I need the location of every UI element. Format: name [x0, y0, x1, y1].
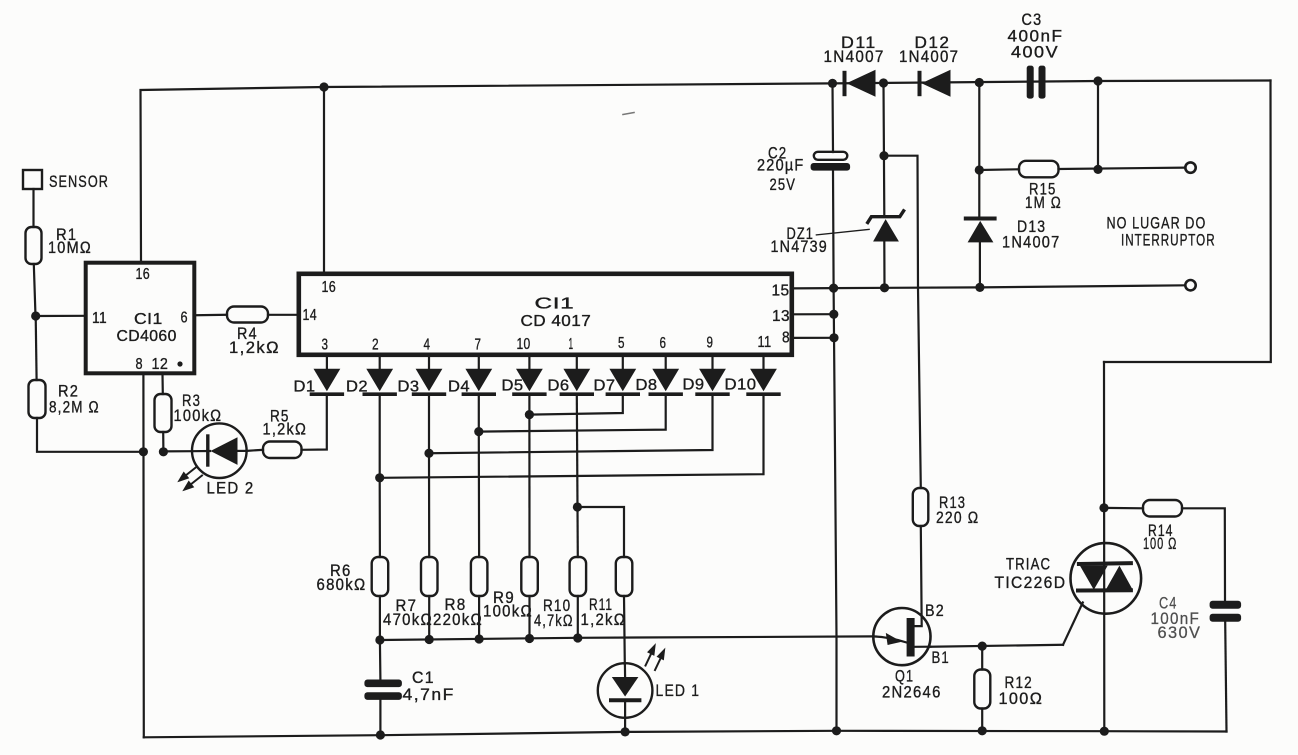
- node: [525, 410, 534, 419]
- svg-text:15: 15: [772, 283, 790, 300]
- node: [879, 151, 888, 160]
- svg-text:11: 11: [92, 310, 107, 327]
- wire C4 to bottom bus: [1225, 622, 1226, 732]
- diode D13: [966, 218, 1061, 252]
- wire D4 to D8: [479, 394, 666, 432]
- svg-text:11: 11: [758, 334, 772, 351]
- wire D3 to D9: [429, 394, 713, 453]
- node junction: [31, 311, 40, 320]
- svg-text:8,2M Ω: 8,2M Ω: [49, 399, 100, 417]
- diode D1: [294, 357, 343, 396]
- node: [425, 635, 434, 644]
- svg-text:12: 12: [152, 356, 169, 373]
- wire pin8 of CD4060 down: [142, 374, 145, 737]
- node: [474, 427, 483, 436]
- svg-text:8: 8: [782, 330, 790, 347]
- svg-text:2N2646: 2N2646: [882, 684, 942, 702]
- svg-text:CD 4017: CD 4017: [521, 313, 592, 330]
- wire rail pin13: [792, 313, 834, 315]
- svg-text:1,2kΩ: 1,2kΩ: [581, 611, 627, 629]
- wire rail pin15: [792, 285, 1185, 288]
- terminal upper: [1185, 162, 1195, 172]
- wire: [34, 264, 36, 316]
- svg-text:TRIAC: TRIAC: [1006, 556, 1051, 574]
- resistor R8: [433, 557, 487, 629]
- wire C2 drop from top bus: [831, 83, 834, 152]
- wire C3 junction drop: [1097, 81, 1099, 169]
- wire R15 left lead: [979, 168, 1019, 171]
- svg-text:CD4060: CD4060: [117, 328, 177, 345]
- svg-text:D7: D7: [594, 378, 616, 395]
- svg-text:5: 5: [618, 335, 625, 352]
- svg-text:1M Ω: 1M Ω: [1025, 194, 1062, 212]
- wire pin12 of CD4060 to R3: [161, 374, 164, 394]
- svg-text:680kΩ: 680kΩ: [317, 576, 367, 594]
- svg-text:7: 7: [475, 337, 482, 354]
- node: [975, 165, 984, 174]
- wire gate diagonal: [1063, 603, 1083, 645]
- svg-text:1,2kΩ: 1,2kΩ: [229, 339, 280, 357]
- svg-text:6: 6: [660, 335, 667, 352]
- wire R3 to bus: [162, 432, 164, 452]
- diode D8: [636, 357, 682, 394]
- node: [621, 727, 630, 736]
- resistor R7: [383, 557, 438, 629]
- diode D4: [448, 357, 494, 396]
- svg-text:D4: D4: [448, 379, 470, 396]
- wire pin16 of CD4060 up to top bus: [141, 87, 325, 261]
- resistor R12: [974, 670, 1043, 709]
- diode D7: [594, 357, 639, 395]
- svg-text:D1: D1: [294, 379, 316, 396]
- terminal lower: [1185, 280, 1195, 290]
- node: [829, 284, 838, 293]
- wire D3 junction down to R7: [428, 453, 430, 557]
- resistor R6: [317, 557, 389, 596]
- LED D-LED1: [598, 646, 700, 732]
- wire: [37, 418, 143, 452]
- node: [424, 449, 433, 458]
- svg-text:16: 16: [322, 279, 337, 296]
- stray scan mark: [623, 113, 634, 115]
- node: [319, 82, 328, 91]
- node: [1093, 76, 1102, 85]
- svg-text:1,2kΩ: 1,2kΩ: [263, 421, 308, 439]
- svg-text:CI1: CI1: [134, 311, 163, 328]
- svg-text:4: 4: [424, 337, 431, 354]
- node: [375, 473, 384, 482]
- text no lugar do interruptor: [1107, 215, 1216, 250]
- triac TIC226D: [995, 543, 1142, 614]
- node: [1099, 503, 1108, 512]
- wire R10 to emitter bus: [577, 596, 579, 638]
- capacitor C2: [757, 145, 850, 195]
- wire LED2 to R5: [247, 450, 264, 451]
- diode D12: [899, 34, 959, 97]
- diode D9: [683, 357, 728, 394]
- node: [829, 310, 838, 319]
- svg-text:1N4007: 1N4007: [824, 48, 885, 66]
- wire CD4017 pin16 drop: [323, 87, 325, 272]
- svg-text:D6: D6: [548, 378, 570, 395]
- svg-text:8: 8: [136, 356, 143, 373]
- resistor R1: [26, 226, 93, 264]
- node: [880, 283, 889, 292]
- svg-text:4,7kΩ: 4,7kΩ: [534, 612, 574, 630]
- node: [1100, 727, 1109, 736]
- svg-text:D3: D3: [398, 379, 420, 396]
- capacitor C1: [364, 669, 454, 704]
- diode D5: [502, 357, 545, 395]
- wire R13 to Q1 B2: [915, 526, 922, 626]
- wire D6 junction to R11: [577, 507, 624, 557]
- wire R15 right lead to terminal: [1059, 168, 1186, 169]
- wire R6 node down to C1: [379, 640, 382, 679]
- node: [159, 447, 168, 456]
- node: [829, 333, 838, 342]
- svg-text:D8: D8: [636, 377, 658, 394]
- svg-text:630V: 630V: [1158, 624, 1202, 642]
- svg-text:14: 14: [303, 307, 318, 324]
- svg-text:220µF: 220µF: [757, 157, 805, 175]
- wire bus to LED2: [163, 450, 192, 452]
- svg-text:C3: C3: [1022, 11, 1043, 29]
- diode D6: [548, 357, 593, 395]
- node: [375, 635, 384, 644]
- svg-text:10: 10: [517, 336, 531, 353]
- svg-text:470kΩ: 470kΩ: [383, 611, 433, 629]
- svg-text:NO LUGAR DO: NO LUGAR DO: [1107, 215, 1207, 233]
- wire DZ1 to rail: [883, 242, 885, 288]
- node: [139, 447, 148, 456]
- svg-text:220kΩ: 220kΩ: [433, 611, 483, 629]
- node: [573, 502, 582, 511]
- resistor R10: [534, 557, 586, 630]
- resistor R9: [483, 557, 538, 621]
- wire B1 line: [931, 645, 1064, 647]
- node: [978, 726, 987, 735]
- resistor R11: [581, 557, 633, 629]
- svg-text:B2: B2: [925, 602, 945, 620]
- wire D2 to D10: [380, 394, 764, 478]
- node: [475, 634, 484, 643]
- svg-text:1N4007: 1N4007: [899, 48, 959, 66]
- wire D5 to D7: [529, 394, 622, 415]
- svg-text:100Ω: 100Ω: [999, 690, 1044, 708]
- svg-text:D9: D9: [683, 377, 705, 394]
- capacitor C3: [1008, 11, 1064, 99]
- sensor terminal SENSOR: [23, 170, 109, 191]
- wire D13 to rail: [979, 242, 981, 287]
- node: [1093, 165, 1102, 174]
- wire R6 to emitter bus: [379, 596, 381, 640]
- diode D10: [725, 357, 779, 394]
- resistor R4: [227, 307, 280, 358]
- resistor R5: [263, 408, 308, 459]
- resistor R13: [913, 488, 980, 527]
- svg-text:LED 1: LED 1: [656, 682, 701, 700]
- transistor Q1 2N2646: [873, 602, 949, 702]
- node: [376, 730, 385, 739]
- wire: [36, 315, 85, 317]
- wire R9 to emitter bus: [528, 596, 530, 639]
- wire D5 junction down to R9: [528, 415, 530, 557]
- svg-text:C1: C1: [412, 669, 435, 687]
- node: [525, 634, 534, 643]
- wire R5 to D1: [302, 396, 327, 450]
- svg-text:INTERRUPTOR: INTERRUPTOR: [1121, 232, 1216, 250]
- svg-text:100kΩ: 100kΩ: [483, 603, 533, 621]
- wire top bus: [324, 81, 1271, 88]
- resistor R14: [1143, 500, 1182, 553]
- svg-text:D10: D10: [725, 377, 757, 394]
- node: [828, 79, 837, 88]
- svg-text:10MΩ: 10MΩ: [48, 239, 92, 257]
- wire C1 to bottom bus: [379, 700, 381, 735]
- wire: [35, 316, 38, 380]
- node: [832, 726, 841, 735]
- wire R4 to CD4017 pin14: [268, 314, 297, 316]
- diode D2: [346, 357, 395, 396]
- svg-text:CI1: CI1: [535, 296, 575, 313]
- wire emitter bus: [380, 636, 874, 640]
- svg-text:TIC226D: TIC226D: [995, 574, 1067, 592]
- diode D3: [398, 357, 445, 396]
- wire D4 junction down to R8: [478, 432, 481, 557]
- wire R12 top lead: [981, 646, 983, 669]
- wire R8 to emitter bus: [478, 596, 480, 639]
- wire bottom bus: [144, 731, 1227, 738]
- wire D13 branch down: [978, 83, 980, 218]
- node: [879, 78, 888, 87]
- wire R14 left lead: [1104, 507, 1143, 510]
- svg-text:400V: 400V: [1011, 44, 1059, 62]
- svg-text:D2: D2: [346, 379, 368, 396]
- wire D2 junction down to R6: [379, 478, 381, 557]
- node: [975, 283, 984, 292]
- node: [975, 78, 984, 87]
- svg-text:D5: D5: [502, 378, 524, 395]
- wire rail pin8: [792, 337, 834, 339]
- svg-text:9: 9: [707, 335, 714, 352]
- svg-text:1N4739: 1N4739: [771, 238, 829, 256]
- op-amp U2 CI1 CD4017: [299, 274, 792, 355]
- svg-text:25V: 25V: [770, 176, 797, 194]
- wire B2 branch: [884, 156, 921, 488]
- op-amp U1 CI1 CD4060: [86, 263, 195, 374]
- svg-text:16: 16: [136, 266, 151, 283]
- wire R12 to bottom bus: [981, 709, 983, 731]
- resistor R3: [155, 392, 223, 432]
- svg-text:4,7nF: 4,7nF: [403, 686, 455, 704]
- svg-text:13: 13: [772, 308, 790, 325]
- wire triac vertical: [1103, 362, 1106, 731]
- node: [978, 642, 987, 651]
- svg-text:1: 1: [569, 336, 574, 353]
- svg-text:100kΩ: 100kΩ: [174, 407, 223, 425]
- wire DZ1 branch down: [882, 83, 885, 215]
- wire R14 to C4: [1182, 508, 1225, 600]
- svg-text:220 Ω: 220 Ω: [936, 509, 979, 527]
- diode D11: [824, 34, 885, 97]
- wire R7 to emitter bus: [428, 596, 430, 640]
- capacitor C4: [1151, 595, 1242, 643]
- svg-text:2: 2: [372, 337, 379, 354]
- svg-text:3: 3: [322, 337, 329, 354]
- svg-text:100 Ω: 100 Ω: [1143, 535, 1177, 553]
- svg-text:B1: B1: [932, 649, 950, 667]
- svg-text:1N4007: 1N4007: [1002, 234, 1061, 252]
- svg-text:6: 6: [181, 310, 188, 327]
- resistor R2: [29, 380, 100, 418]
- zener DZ1: [771, 211, 904, 256]
- svg-text:SENSOR: SENSOR: [49, 173, 109, 191]
- wire C2 to rail and down to bottom bus: [833, 171, 837, 731]
- wire right edge: [1104, 81, 1271, 363]
- node: [573, 633, 582, 642]
- wire D6 down to R10: [577, 394, 578, 557]
- svg-text:LED 2: LED 2: [207, 480, 255, 498]
- wire R11 down to LED1: [623, 596, 626, 664]
- LED D-LED2: [180, 423, 255, 497]
- wire pin6 to R4: [195, 314, 227, 317]
- wire: [32, 189, 34, 227]
- resistor R15: [1019, 161, 1062, 212]
